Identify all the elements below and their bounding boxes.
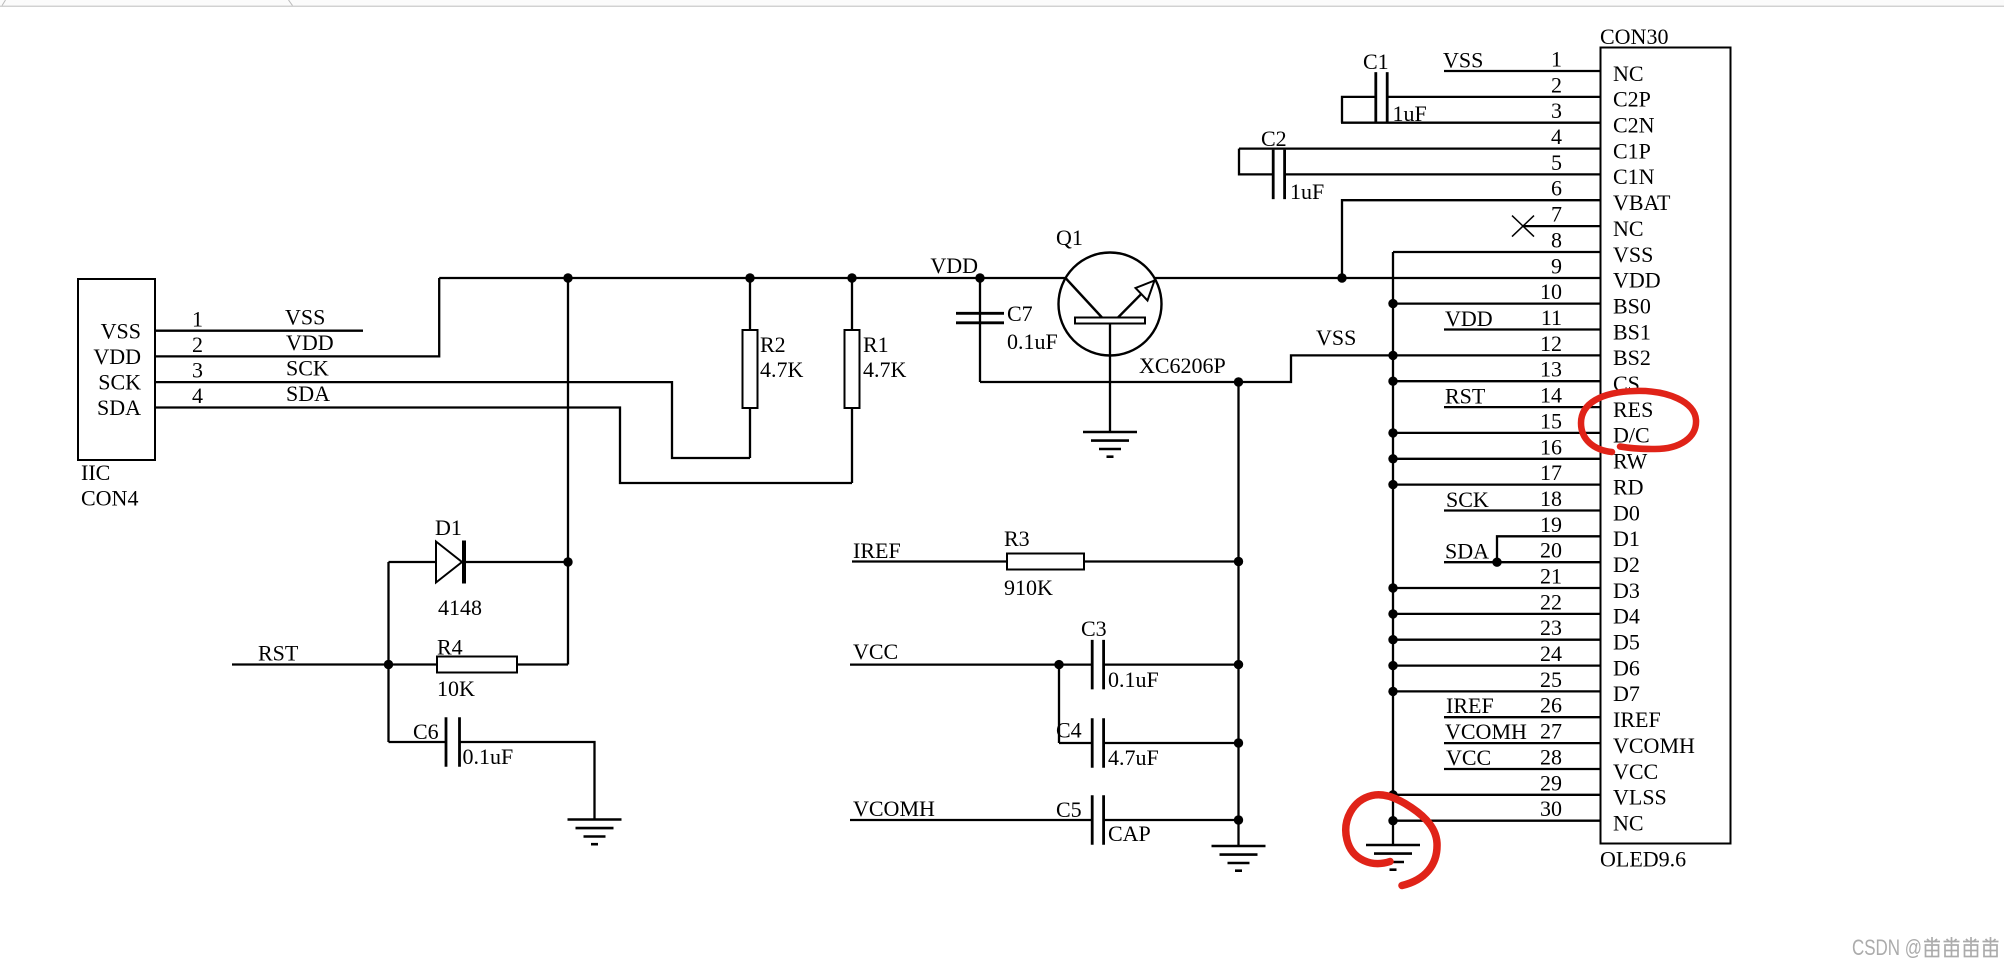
svg-text:25: 25 (1540, 667, 1562, 692)
connector IIC pin label SDA (97, 395, 141, 420)
connector IIC pin label VSS (101, 319, 141, 344)
svg-text:4148: 4148 (438, 595, 482, 620)
CON30 pin name VCOMH (1613, 733, 1695, 758)
svg-text:VCC: VCC (853, 639, 898, 664)
svg-text:VDD: VDD (286, 330, 334, 355)
CON30 pin name C2N (1613, 113, 1655, 138)
wire CON30 pin13 CS (1393, 380, 1601, 382)
wire C4 left (1059, 742, 1092, 744)
CON30 pin name C2P (1613, 87, 1651, 112)
svg-text:VCOMH: VCOMH (853, 796, 935, 821)
wire capacitor bus vertical (1237, 382, 1239, 846)
connector IIC pin label VDD (93, 344, 141, 369)
CON30 pin number 10 (1540, 279, 1562, 304)
svg-text:0.1uF: 0.1uF (1108, 667, 1159, 692)
wire C1 left stub and drop (1342, 97, 1376, 123)
diode D1 label (435, 515, 462, 540)
diode D1 anode wire (389, 561, 437, 563)
capacitor C3 label (1081, 616, 1107, 641)
CON30 pin number 29 (1540, 770, 1562, 795)
svg-text:VCOMH: VCOMH (1613, 733, 1695, 758)
ground (VSS bus) (1366, 845, 1420, 870)
svg-text:RW: RW (1613, 449, 1647, 474)
capacitor C5 value CAP (1108, 821, 1151, 846)
CON30 pin name VCC (1613, 759, 1658, 784)
wire VCOMH left (850, 819, 1092, 821)
CON30 pin number 1 (1551, 47, 1562, 72)
wire C7/Q1 output to CON30 pin 12 (980, 355, 1601, 382)
wire CON30 pin15 D/C (1393, 432, 1601, 434)
watermark author glyphs (1924, 937, 1999, 957)
junction dot bus/pin15 (1388, 428, 1397, 437)
junction dot output/cap-bus (1234, 377, 1243, 386)
svg-text:VCOMH: VCOMH (1445, 719, 1527, 744)
capacitor C4 plates (1092, 718, 1103, 768)
junction dot C3/bus (1234, 660, 1243, 669)
svg-text:C4: C4 (1056, 718, 1082, 743)
CON30 pin name RD (1613, 474, 1644, 499)
capacitor C7 value 0.1uF (1007, 329, 1058, 354)
CON30 pin name D0 (1613, 500, 1640, 525)
junction dot C5/bus (1234, 815, 1243, 824)
svg-text:CON30: CON30 (1600, 24, 1668, 49)
svg-text:VCC: VCC (1613, 759, 1658, 784)
svg-text:SCK: SCK (286, 356, 329, 381)
junction dot C4/bus (1234, 738, 1243, 747)
resistor R4 body (437, 657, 517, 673)
CON30 pin name D6 (1613, 655, 1640, 680)
wire CON30 pin17 RD (1393, 483, 1601, 485)
ground (C6) (568, 820, 622, 845)
node RST label (258, 641, 299, 666)
junction dot rail / VBAT branch (1337, 273, 1346, 282)
svg-text:VDD: VDD (93, 344, 141, 369)
CON30 pin number 20 (1540, 538, 1562, 563)
CON30 pin number 9 (1551, 253, 1562, 278)
svg-text:30: 30 (1540, 796, 1562, 821)
CON30 pin number 19 (1540, 512, 1562, 537)
CON30 pin number 15 (1540, 408, 1562, 433)
resistor R3 label (1004, 526, 1030, 551)
svg-text:NC: NC (1613, 811, 1644, 836)
svg-text:0.1uF: 0.1uF (1007, 329, 1058, 354)
svg-text:D4: D4 (1613, 604, 1640, 629)
wire R2 top (749, 278, 751, 330)
CON30 pin number 8 (1551, 228, 1562, 253)
wire RST line (232, 663, 437, 665)
svg-text:26: 26 (1540, 693, 1562, 718)
svg-text:9: 9 (1551, 253, 1562, 278)
wire CON30 pin16 RW (1393, 458, 1601, 460)
svg-text:1: 1 (192, 307, 203, 332)
svg-text:R2: R2 (760, 332, 786, 357)
svg-text:VLSS: VLSS (1613, 785, 1667, 810)
junction dot bus/pin16 (1388, 454, 1397, 463)
CON30 pin name D3 (1613, 578, 1640, 603)
wire CON30 pin5 C1N (1285, 173, 1601, 175)
CON30 pin number 22 (1540, 589, 1562, 614)
resistor R4 label (437, 635, 463, 660)
junction dot RST/R4/C6 (384, 660, 393, 669)
svg-text:16: 16 (1540, 434, 1562, 459)
transistor Q1 circle (1059, 253, 1162, 356)
capacitor C5 label (1056, 797, 1082, 822)
CON30 pin name BS1 (1613, 319, 1651, 344)
junction dot rail / D1 branch (563, 273, 572, 282)
capacitor C3 plates (1092, 640, 1103, 690)
CON30 pin name CS (1613, 371, 1640, 396)
diode D1 value 4148 (438, 595, 482, 620)
net label IREF (853, 538, 901, 563)
resistor R2 value 4.7K (760, 357, 804, 382)
svg-text:BS1: BS1 (1613, 319, 1651, 344)
transistor Q1 label (1056, 225, 1083, 250)
svg-text:VSS: VSS (1613, 242, 1653, 267)
capacitor C3 value 0.1uF (1108, 667, 1159, 692)
CON30 pin name NC (1613, 811, 1644, 836)
svg-text:18: 18 (1540, 486, 1562, 511)
capacitor C6 plates (446, 717, 460, 767)
CON30 pin number 16 (1540, 434, 1562, 459)
wire CON30 pin7 NC (1523, 225, 1601, 227)
diode D1 cathode bar (462, 541, 466, 584)
svg-text:RST: RST (1445, 384, 1486, 409)
svg-text:IREF: IREF (853, 538, 901, 563)
svg-text:CSDN @: CSDN @ (1852, 935, 1922, 960)
svg-text:C2: C2 (1261, 126, 1287, 151)
svg-text:NC: NC (1613, 61, 1644, 86)
svg-text:IREF: IREF (1446, 693, 1494, 718)
svg-text:SDA: SDA (1445, 539, 1489, 564)
capacitor C4 label (1056, 718, 1082, 743)
net label VSS (IIC pin 1) (285, 305, 325, 330)
svg-text:NC: NC (1613, 216, 1644, 241)
net label SDA (pin 20) (1445, 539, 1489, 564)
junction dot bus/pin21 (1388, 583, 1397, 592)
svg-text:7: 7 (1551, 202, 1562, 227)
CON30 pin number 24 (1540, 641, 1562, 666)
junction dot VCC/C4 (1054, 660, 1063, 669)
svg-text:4: 4 (1551, 124, 1562, 149)
capacitor C6 left wire (389, 741, 447, 743)
junction dot bus/pin13 (1388, 377, 1397, 386)
ground (Q1) (1083, 432, 1137, 457)
CON30 pin name BS2 (1613, 345, 1651, 370)
wire CON30 pin24 D6 (1393, 664, 1601, 666)
svg-text:3: 3 (1551, 98, 1562, 123)
connector IIC pin label SCK (98, 370, 141, 395)
svg-text:RD: RD (1613, 474, 1644, 499)
wire VDD rail (left of Q1) (439, 277, 1065, 279)
svg-text:C1N: C1N (1613, 164, 1655, 189)
CON30 pin number 14 (1540, 383, 1562, 408)
wire R1 top (851, 278, 853, 330)
CON30 pin name D1 (1613, 526, 1640, 551)
net label SDA (IIC pin 4) (286, 381, 330, 406)
ground (capacitor bus) (1212, 846, 1266, 871)
wire VDD rail (right of Q1 to CON30 pin 9) (1155, 277, 1601, 279)
net label SCK (IIC pin 3) (286, 356, 329, 381)
wire CON30 pin8 VSS (bus top) (1393, 251, 1601, 253)
CON30 pin number 21 (1540, 564, 1562, 589)
svg-text:15: 15 (1540, 408, 1562, 433)
transistor Q1 collector diagonal (1066, 278, 1103, 318)
capacitor C7 vertical wire (979, 278, 981, 382)
wire VCC down to C4 (1058, 665, 1060, 743)
wire CON30 pin29 VLSS (1393, 794, 1601, 796)
svg-text:VSS: VSS (101, 319, 141, 344)
wire R4 right to D1 cathode node (517, 663, 568, 665)
junction dot bus/pin23 (1388, 635, 1397, 644)
resistor R1 label (863, 332, 889, 357)
wire IREF right (1084, 560, 1239, 562)
svg-text:SCK: SCK (98, 370, 141, 395)
CON30 pin name D5 (1613, 630, 1640, 655)
svg-text:20: 20 (1540, 538, 1562, 563)
net label VCOMH (pin 27) (1445, 719, 1527, 744)
svg-text:29: 29 (1540, 770, 1562, 795)
svg-text:13: 13 (1540, 357, 1562, 382)
CON30 pin number 30 (1540, 796, 1562, 821)
svg-text:10K: 10K (437, 676, 475, 701)
junction dot bus/pin22 (1388, 609, 1397, 618)
svg-text:3: 3 (192, 358, 203, 383)
junction dot bus/pin25 (1388, 687, 1397, 696)
wire CON30 pin26 IREF (1444, 716, 1601, 718)
wire IREF left (852, 560, 1007, 562)
CON30 pin number 13 (1540, 357, 1562, 382)
svg-text:5: 5 (1551, 150, 1562, 175)
svg-text:C1P: C1P (1613, 138, 1651, 163)
wire CON30 pin21 D3 (1393, 587, 1601, 589)
connector J-IIC box (78, 279, 155, 460)
CON30 pin name NC (1613, 216, 1644, 241)
net label IREF (pin 26) (1446, 693, 1494, 718)
svg-text:Q1: Q1 (1056, 225, 1083, 250)
wire R1 bottom stub (851, 408, 853, 483)
net label RST (pin 14) (1445, 384, 1486, 409)
wire C4 right (1104, 742, 1239, 744)
CON30 pin name VSS (1613, 242, 1653, 267)
svg-text:D1: D1 (435, 515, 462, 540)
CON30 pin number 4 (1551, 124, 1562, 149)
transistor Q1 emitter arrowhead (1136, 281, 1155, 301)
diode D1 cathode wire (466, 561, 568, 563)
wire CON30 pin4 C1P (1239, 147, 1601, 149)
wire CON30 pin3 C2N (1341, 122, 1601, 124)
wire IIC pin1 VSS (155, 330, 363, 332)
wire C2 left stub and riser (1239, 149, 1273, 175)
net label VDD (IIC pin 2) (286, 330, 334, 355)
svg-text:BS2: BS2 (1613, 345, 1651, 370)
wire IIC pin4 SDA to R1 (155, 408, 852, 484)
svg-text:8: 8 (1551, 228, 1562, 253)
net label SCK (pin 18) (1446, 487, 1489, 512)
svg-text:C2N: C2N (1613, 113, 1655, 138)
wire CON30 pin11 BS1 (1444, 328, 1601, 330)
CON30 pin name D/C (1613, 423, 1650, 448)
svg-text:IREF: IREF (1613, 707, 1661, 732)
net label VDD (pin 11) (1445, 306, 1493, 331)
wire CON30 pin27 VCOMH (1444, 742, 1601, 744)
svg-text:2: 2 (192, 332, 203, 357)
resistor R3 value 910K (1004, 575, 1053, 600)
connector CON30 title (1600, 24, 1668, 49)
connector CON30 box (1601, 48, 1731, 844)
junction dot bus/pin12 (1388, 351, 1397, 360)
svg-text:VBAT: VBAT (1613, 190, 1671, 215)
svg-text:VDD: VDD (930, 253, 978, 278)
no-connect X (pin 7) (1512, 216, 1534, 237)
connector CON30 footprint OLED9.6 (1600, 847, 1686, 872)
wire CON30 pin22 D4 (1393, 613, 1601, 615)
junction dot rail / R1 (847, 273, 856, 282)
svg-text:4.7K: 4.7K (863, 357, 907, 382)
svg-text:910K: 910K (1004, 575, 1053, 600)
junction dot bus/pin30 (1388, 816, 1397, 825)
transistor Q1 base bar (1075, 318, 1145, 324)
connector IIC name CON4 (81, 486, 138, 511)
capacitor C1 label (1363, 49, 1389, 74)
wire CON30 pin23 D5 (1393, 639, 1601, 641)
svg-text:RST: RST (258, 641, 299, 666)
svg-text:XC6206P: XC6206P (1139, 353, 1226, 378)
svg-text:C6: C6 (413, 719, 439, 744)
wire Q1 base down to ground (1109, 324, 1111, 433)
red circle annotation around VSS-bus ground (1346, 795, 1437, 886)
wire CON30 pin2 C2P (1387, 96, 1600, 98)
svg-text:21: 21 (1540, 564, 1562, 589)
capacitor C2 value 1uF (1290, 179, 1324, 204)
wire C5 right (1104, 819, 1239, 821)
capacitor C7 label (1007, 301, 1033, 326)
CON30 pin number 26 (1540, 693, 1562, 718)
CON30 pin number 3 (1551, 98, 1562, 123)
CON30 pin number 18 (1540, 486, 1562, 511)
connector IIC name IIC (81, 460, 110, 485)
wire CON30 pin20 D2 (1444, 561, 1601, 563)
resistor R2 body (743, 330, 758, 408)
svg-text:4: 4 (192, 383, 203, 408)
capacitor C5 plates (1092, 795, 1103, 845)
net label VCOMH (853, 796, 935, 821)
wire CON30 pin10 BS0 (1393, 302, 1601, 304)
svg-text:CAP: CAP (1108, 821, 1151, 846)
svg-text:VSS: VSS (1443, 48, 1483, 73)
CON30 pin number 28 (1540, 745, 1562, 770)
capacitor C4 value 4.7uF (1108, 745, 1159, 770)
wire CON30 pin19 D1 jog (1497, 536, 1601, 562)
svg-text:D3: D3 (1613, 578, 1640, 603)
wire CON30 pin30 NC (1393, 820, 1601, 822)
transistor Q1 emitter diagonal (1118, 280, 1155, 318)
wire R2 bottom stub (749, 408, 751, 458)
junction dot bus/pin29 (1388, 790, 1397, 799)
svg-text:R3: R3 (1004, 526, 1030, 551)
svg-text:24: 24 (1540, 641, 1562, 666)
wire D1 anode down to RST/C6 (387, 562, 389, 742)
capacitor C2 plates (1273, 150, 1284, 200)
resistor R1 value 4.7K (863, 357, 907, 382)
svg-text:SDA: SDA (286, 381, 330, 406)
wire VSS bus vertical (1392, 252, 1394, 845)
CON30 pin number 2 (1551, 72, 1562, 97)
node VDD label (930, 253, 978, 278)
svg-text:19: 19 (1540, 512, 1562, 537)
wire VDD-rail down to RST line (567, 278, 569, 665)
resistor R1 body (845, 330, 860, 408)
IIC pin number 2 (192, 332, 203, 357)
svg-text:12: 12 (1540, 331, 1562, 356)
IIC pin number 3 (192, 358, 203, 383)
wire CON30 pin6 VBAT to rail (1342, 200, 1601, 278)
capacitor C2 label (1261, 126, 1287, 151)
svg-text:22: 22 (1540, 589, 1562, 614)
svg-text:VSS: VSS (1316, 325, 1356, 350)
wire CON30 pin18 D0 (1444, 509, 1601, 511)
capacitor C6 value 0.1uF (463, 744, 514, 769)
CON30 pin name VBAT (1613, 190, 1671, 215)
svg-text:C3: C3 (1081, 616, 1107, 641)
svg-text:6: 6 (1551, 176, 1562, 201)
svg-text:C5: C5 (1056, 797, 1082, 822)
CON30 pin name VLSS (1613, 785, 1667, 810)
CON30 pin name BS0 (1613, 293, 1651, 318)
page top hairline (0, 0, 2004, 7)
junction dot bus/pin17 (1388, 480, 1397, 489)
wire IIC pin3 SCK to R2 (155, 382, 750, 458)
junction dot SDA/pin19 (1492, 558, 1501, 567)
svg-text:0.1uF: 0.1uF (463, 744, 514, 769)
resistor R2 label (760, 332, 786, 357)
svg-text:17: 17 (1540, 460, 1562, 485)
svg-text:OLED9.6: OLED9.6 (1600, 847, 1686, 872)
watermark CSDN text (1852, 935, 1922, 960)
svg-text:D5: D5 (1613, 630, 1640, 655)
resistor R4 value 10K (437, 676, 475, 701)
wire VCC left (850, 663, 1092, 665)
wire CON30 pin28 VCC (1444, 768, 1601, 770)
junction dot rail / R2 (745, 273, 754, 282)
wire IIC pin2 VDD to VDD rail (155, 278, 439, 356)
svg-text:RES: RES (1613, 397, 1653, 422)
svg-text:VCC: VCC (1446, 745, 1491, 770)
svg-text:28: 28 (1540, 745, 1562, 770)
svg-text:SCK: SCK (1446, 487, 1489, 512)
CON30 pin name D4 (1613, 604, 1640, 629)
wire C3 right (1104, 663, 1239, 665)
capacitor C6 right wire to ground (460, 742, 595, 819)
CON30 pin number 25 (1540, 667, 1562, 692)
svg-text:2: 2 (1551, 72, 1562, 97)
CON30 pin name VDD (1613, 268, 1661, 293)
capacitor C6 label (413, 719, 439, 744)
CON30 pin number 23 (1540, 615, 1562, 640)
svg-text:1uF: 1uF (1290, 179, 1324, 204)
svg-text:14: 14 (1540, 383, 1562, 408)
diode D1 triangle (436, 542, 462, 583)
CON30 pin name NC (1613, 61, 1644, 86)
capacitor C7 plates (956, 313, 1004, 323)
CON30 pin name IREF (1613, 707, 1661, 732)
junction dot rail / C7 (VDD node) (975, 273, 984, 282)
wire CON30 pin14 RES (1444, 406, 1601, 408)
svg-text:D7: D7 (1613, 681, 1640, 706)
svg-text:4.7uF: 4.7uF (1108, 745, 1159, 770)
transistor Q1 part number XC6206P (1139, 353, 1226, 378)
CON30 pin number 7 (1551, 202, 1562, 227)
capacitor C1 plates (1376, 72, 1387, 122)
